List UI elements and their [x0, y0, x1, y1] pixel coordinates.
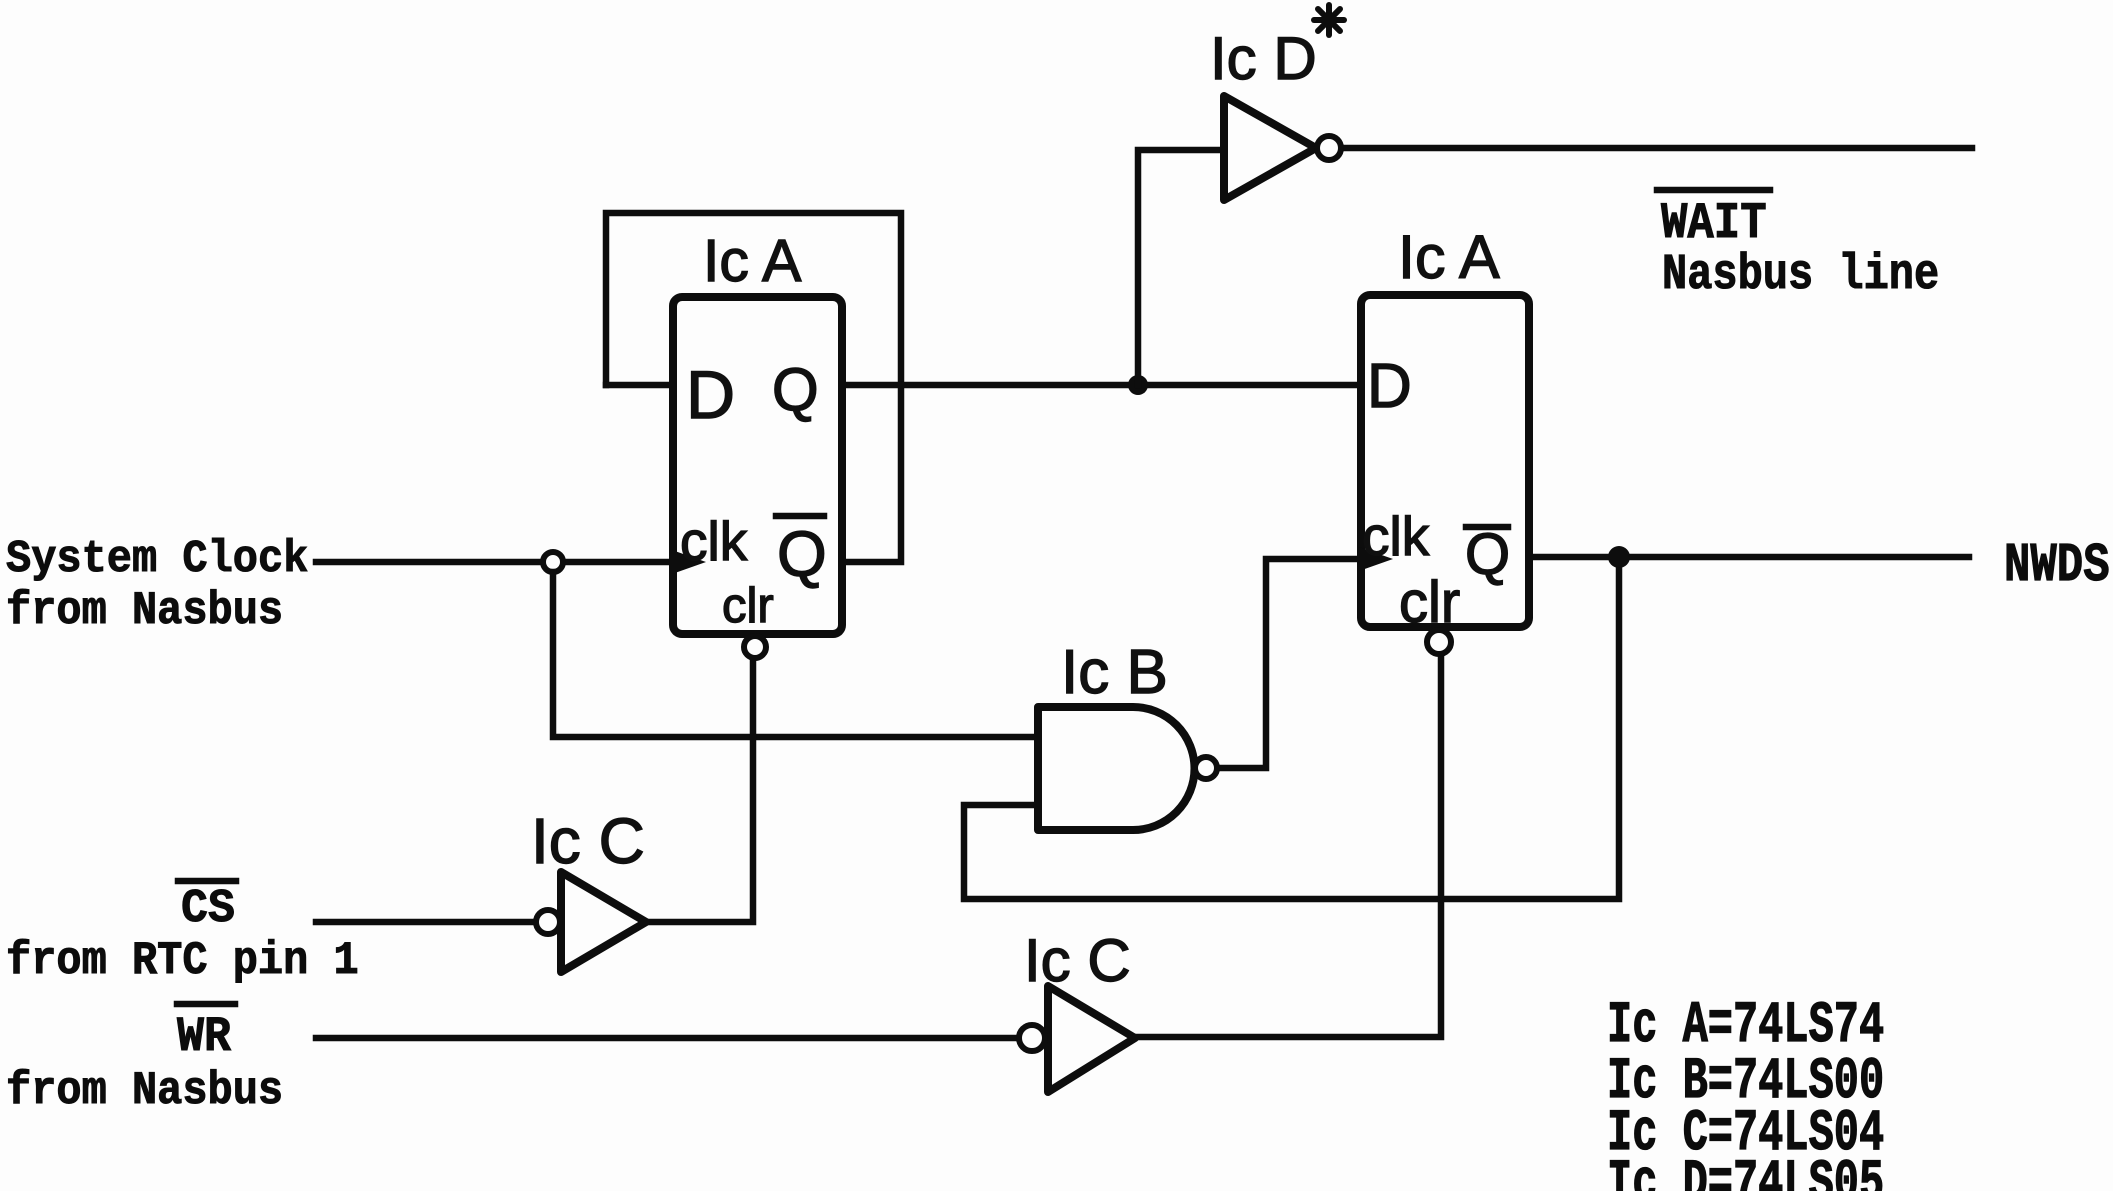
svg-text:D: D: [686, 357, 735, 433]
svg-text:Ic D=74LS05: Ic D=74LS05: [1607, 1151, 1884, 1191]
svg-text:Nasbus line: Nasbus line: [1662, 246, 1939, 304]
svg-text:Q: Q: [1465, 522, 1510, 587]
svg-text:clr: clr: [722, 579, 774, 633]
svg-text:clk: clk: [680, 510, 748, 572]
svg-text:Ic A: Ic A: [703, 228, 802, 294]
svg-text:NWDS: NWDS: [2004, 535, 2110, 597]
svg-text:D: D: [1367, 352, 1412, 421]
svg-text:Q: Q: [772, 356, 819, 423]
svg-text:from RTC pin 1: from RTC pin 1: [6, 935, 359, 987]
svg-text:System Clock: System Clock: [6, 535, 308, 586]
svg-text:WR: WR: [177, 1010, 232, 1065]
svg-text:Ic D: Ic D: [1210, 25, 1317, 92]
svg-text:Ic B: Ic B: [1061, 638, 1168, 707]
svg-text:Ic C: Ic C: [531, 805, 645, 877]
svg-text:WAIT: WAIT: [1661, 196, 1767, 253]
svg-text:Ic A: Ic A: [1398, 223, 1500, 291]
svg-text:CS: CS: [181, 882, 235, 935]
svg-text:from Nasbus: from Nasbus: [6, 1065, 283, 1117]
svg-text:Ic C: Ic C: [1024, 927, 1131, 994]
svg-text:clk: clk: [1362, 505, 1430, 567]
svg-text:clr: clr: [1399, 570, 1460, 635]
svg-text:Q: Q: [777, 518, 827, 590]
svg-text:from Nasbus: from Nasbus: [6, 585, 283, 637]
